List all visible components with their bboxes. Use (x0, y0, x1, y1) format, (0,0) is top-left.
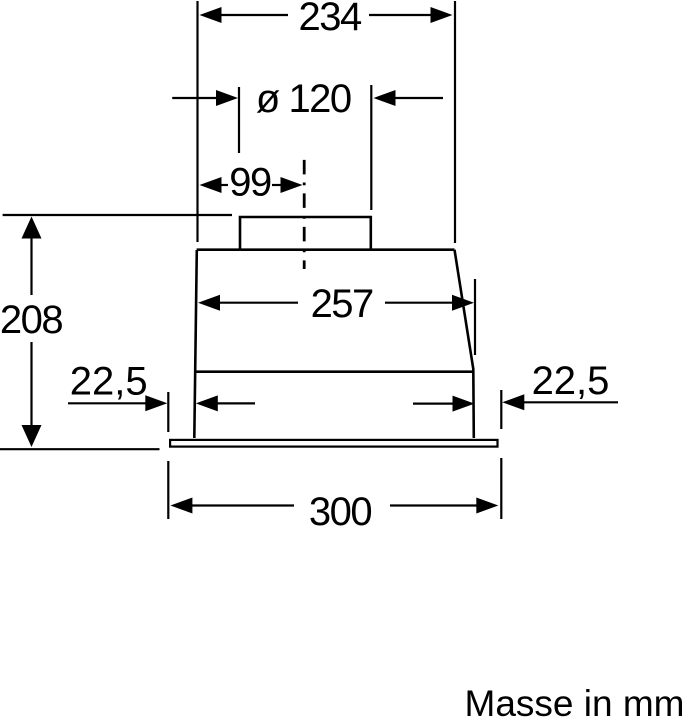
svg-text:257: 257 (311, 282, 373, 326)
svg-text:22,5: 22,5 (70, 360, 148, 404)
svg-text:99: 99 (229, 161, 271, 205)
svg-text:Masse in mm: Masse in mm (465, 683, 685, 720)
svg-text:ø 120: ø 120 (256, 77, 351, 121)
svg-text:22,5: 22,5 (532, 359, 610, 403)
svg-text:208: 208 (0, 298, 62, 342)
svg-text:234: 234 (298, 0, 361, 39)
svg-text:300: 300 (309, 490, 371, 534)
